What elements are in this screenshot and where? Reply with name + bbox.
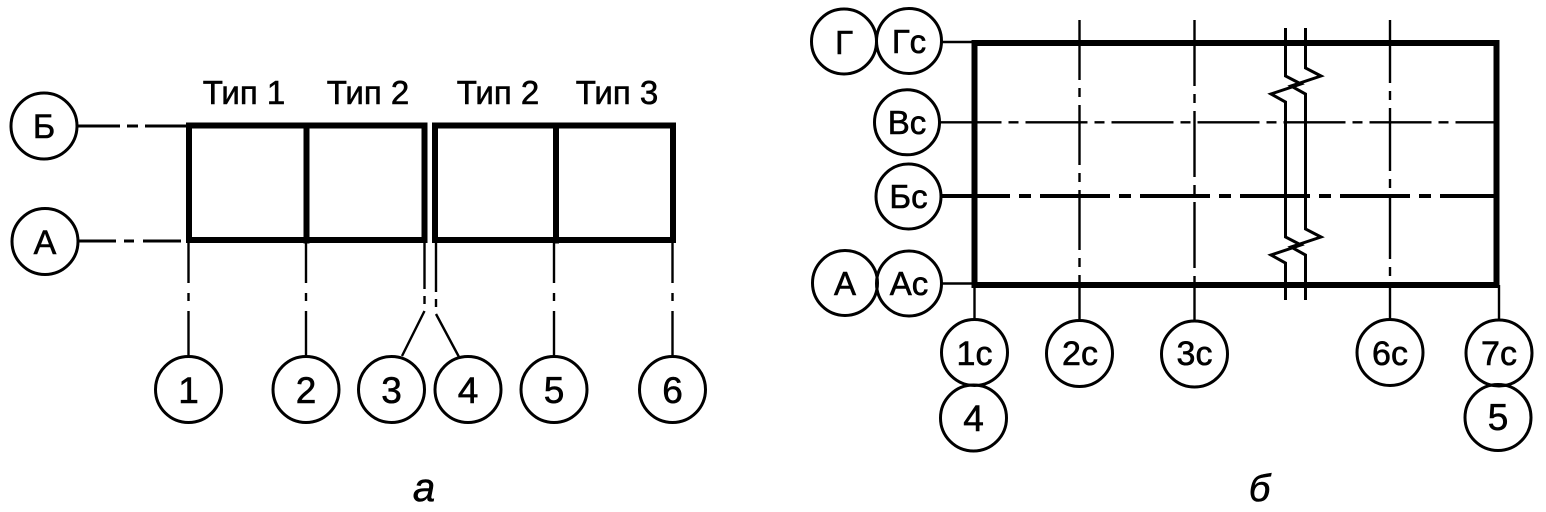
axis circle 4 [941,385,1007,451]
svg-text:4: 4 [963,398,984,439]
svg-text:Тип 2: Тип 2 [457,74,540,111]
connector to circle 1с [973,285,975,320]
grid line 2с (vertical dash-dot) [1078,20,1080,285]
svg-text:5: 5 [544,370,565,411]
svg-text:Г: Г [835,24,853,61]
axis stub Гс to outline [941,41,975,43]
grid line 6с (vertical dash-dot) [1389,20,1391,285]
svg-text:А: А [834,265,856,302]
svg-text:1с: 1с [957,335,993,373]
axis circle 2 [273,357,339,423]
axis circle 4 [435,357,501,423]
block rectangle 1 (Тип 1 / Тип 2) [189,126,425,241]
axis circle А [12,209,78,275]
svg-text:6с: 6с [1372,335,1408,373]
grid line Бс (horizontal dash-dot, thick) [940,194,1494,198]
break line right (with zigzags) [1291,28,1321,300]
partition line of rectangle 2 [553,123,559,244]
axis circle Г [812,9,877,74]
svg-text:Вс: Вс [888,104,927,141]
axis circle 3с [1162,321,1228,387]
column axis line 1 (vertical dash-dot) [187,243,189,356]
axis circle 5 [1465,385,1531,451]
svg-text:Тип 3: Тип 3 [576,74,659,111]
axis circle 6с [1357,320,1423,386]
svg-text:7с: 7с [1481,335,1517,373]
column axis line 3 (dash-dot with bend to circle 3) [402,243,425,356]
svg-text:Тип 1: Тип 1 [203,74,286,111]
axis circle Гс [877,9,942,74]
svg-text:б: б [1249,468,1272,510]
axis circle 3 [359,357,425,423]
svg-text:4: 4 [458,370,479,411]
partition line of rectangle 1 [304,123,310,244]
svg-text:6: 6 [662,370,683,411]
break line left (with zigzags) [1271,28,1301,300]
svg-text:Бс: Бс [889,178,927,215]
axis circle Б [11,93,77,159]
svg-text:1: 1 [178,370,199,411]
svg-text:Ас: Ас [890,265,929,302]
column axis line 6 (vertical dash-dot) [671,243,673,356]
axis circle 6 [640,357,706,423]
axis circle 2с [1047,321,1113,387]
svg-text:3с: 3с [1177,335,1213,373]
axis circle Ас [877,251,942,316]
axis circle Вс [875,90,940,155]
axis circle 1с [942,320,1008,386]
grid line 3с (vertical dash-dot) [1193,20,1195,285]
axis circle А (right diagram) [813,251,878,316]
svg-text:а: а [413,466,435,510]
svg-text:Гс: Гс [892,23,926,60]
svg-text:5: 5 [1488,397,1509,438]
axis circle 7с [1466,320,1532,386]
grid line Вс (horizontal dash-dot) [940,121,1494,123]
column axis line 5 (vertical dash-dot) [553,243,555,356]
column axis line 2 (vertical dash-dot) [305,243,307,356]
connector to circle 6с [1389,285,1391,320]
svg-text:Б: Б [33,108,55,146]
svg-text:2: 2 [296,370,317,411]
column axis line 4 (dash-dot with bend to circle 4) [436,243,459,357]
svg-text:А: А [34,224,57,262]
axis line А (horizontal dash-dot) [78,240,189,243]
axis stub Ас to outline [942,282,976,284]
connector to circle 3с [1193,285,1195,321]
connector to circle 7с [1498,285,1500,321]
axis circle 1 [156,357,222,423]
axis circle Бс [876,164,941,229]
svg-text:2с: 2с [1062,335,1098,373]
axis line Б (horizontal dash-dot) [77,125,189,128]
svg-text:Тип 2: Тип 2 [327,74,410,111]
connector to circle 2с [1078,285,1080,321]
svg-text:3: 3 [381,370,402,411]
building outline rectangle [975,43,1497,285]
axis circle 5 [521,357,587,423]
block rectangle 2 (Тип 2 / Тип 3) [435,126,673,241]
